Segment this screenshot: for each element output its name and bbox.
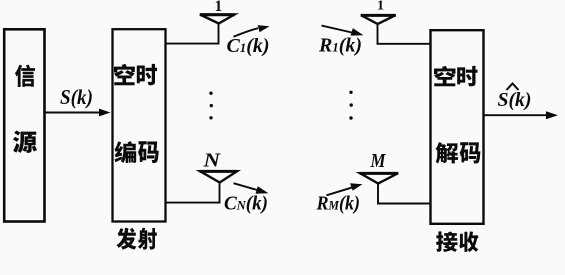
- text encoder 时: [137, 64, 157, 85]
- arrow R1(k) in: [322, 26, 364, 36]
- text source 信: [15, 65, 35, 87]
- text decoder 空: [434, 66, 456, 86]
- wire S(k): [45, 112, 105, 114]
- arrow C1(k) out: [234, 25, 270, 37]
- wire output S hat: [484, 114, 552, 116]
- box source: [4, 29, 44, 221]
- dots rx: [349, 91, 353, 120]
- arrowhead S(k): [99, 109, 111, 117]
- wire antenna M rx to decoder: [378, 184, 431, 204]
- wire encoder to antenna 1: [166, 24, 219, 44]
- wire antenna 1 rx to decoder: [378, 24, 431, 44]
- svg-text:C1(k): C1(k): [227, 35, 270, 57]
- text decoder 码: [460, 142, 481, 163]
- text encoder 码: [138, 141, 159, 163]
- text source 源: [13, 130, 37, 153]
- arrow RM(k) in: [327, 183, 363, 195]
- svg-text:1: 1: [377, 0, 384, 13]
- svg-text:S(k): S(k): [498, 90, 532, 111]
- svg-text:N: N: [202, 149, 221, 171]
- text decoder 解: [435, 142, 458, 163]
- svg-text:R1(k): R1(k): [318, 35, 362, 57]
- text transmit 发: [116, 228, 136, 250]
- hat accent: [507, 84, 519, 91]
- arrow CN(k) out: [234, 183, 269, 194]
- wire encoder to antenna N: [166, 183, 220, 203]
- arrowhead output: [546, 111, 558, 119]
- antenna rx M: [360, 173, 398, 183]
- svg-text:M: M: [370, 150, 387, 172]
- text encoder 编: [114, 141, 136, 163]
- svg-text:S(k): S(k): [60, 85, 93, 109]
- antenna rx 1: [361, 15, 396, 24]
- box decoder: [431, 30, 484, 224]
- antenna tx N: [200, 171, 237, 182]
- svg-text:1: 1: [215, 0, 223, 15]
- svg-text:CN(k): CN(k): [224, 193, 268, 215]
- antenna tx 1: [200, 15, 235, 24]
- text receive 接: [436, 231, 457, 252]
- box encoder: [113, 29, 166, 221]
- text decoder 时: [457, 66, 477, 86]
- text encoder 空: [114, 64, 135, 85]
- text transmit 射: [138, 228, 157, 250]
- dots tx: [209, 92, 213, 120]
- text receive 收: [459, 231, 478, 252]
